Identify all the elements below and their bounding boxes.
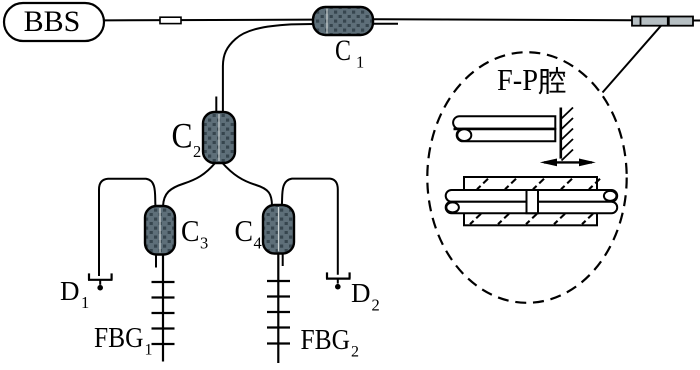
coupler C3 bbox=[145, 206, 208, 255]
wire stub below C3 bbox=[155, 255, 157, 268]
F-P sensor head bbox=[632, 17, 693, 26]
fiber end face bbox=[457, 129, 471, 141]
cavity gap bbox=[527, 190, 539, 213]
detector D2 bbox=[326, 272, 380, 314]
coupler C1 bbox=[313, 7, 373, 72]
svg-text:BBS: BBS bbox=[24, 5, 81, 38]
coupler C4 bbox=[235, 205, 295, 254]
upper fiber end face bbox=[604, 191, 617, 201]
wire BBS to C1 bbox=[104, 19, 313, 22]
detector D1 bbox=[60, 273, 113, 312]
inset upper fiber cylinder bbox=[453, 116, 555, 129]
wire C4 to D2 bbox=[282, 179, 338, 275]
wire stub below C4 bbox=[282, 253, 284, 266]
wire stub right of C1 bbox=[373, 23, 398, 25]
wire C3 to D1 bbox=[99, 179, 156, 276]
wire C2 to C3 bbox=[163, 163, 216, 207]
capillary hatch bottom band bbox=[470, 214, 593, 225]
mirror wall bbox=[559, 108, 562, 159]
capillary hatched block bbox=[464, 177, 597, 225]
wire C1 to F-P sensor head bbox=[373, 19, 632, 20]
mirror hatching bbox=[562, 108, 574, 161]
inset lower fiber cylinder bbox=[457, 129, 556, 141]
connector on input fiber bbox=[160, 17, 181, 23]
wire C1 down to C2 bbox=[223, 24, 313, 112]
displacement arrow bbox=[540, 159, 596, 167]
wire C2 to C4 bbox=[222, 163, 272, 206]
FBG2 grating fiber bbox=[267, 253, 359, 363]
coupler C2 bbox=[172, 112, 236, 163]
inset dashed ellipse bbox=[427, 52, 626, 303]
cavity upper fiber bbox=[446, 190, 618, 202]
source BBS bbox=[4, 3, 104, 41]
wire right of sensor head bbox=[693, 20, 700, 22]
label F-P cavity bbox=[497, 63, 564, 97]
wire stub above C2 bbox=[215, 97, 217, 113]
FBG1 grating fiber bbox=[94, 255, 175, 362]
lower fiber end face bbox=[446, 202, 459, 212]
svg-text:F-P: F-P bbox=[497, 63, 538, 97]
cavity lower fiber bbox=[446, 202, 618, 214]
capillary hatch top band bbox=[477, 179, 600, 190]
leader line from sensor to inset bbox=[603, 26, 662, 93]
